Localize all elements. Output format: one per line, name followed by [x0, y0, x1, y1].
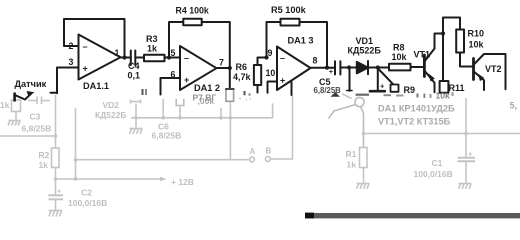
- svg-text:VD1: VD1: [356, 36, 374, 46]
- svg-text:5,: 5,: [510, 101, 518, 111]
- svg-text:–: –: [184, 53, 189, 63]
- svg-text:VT1: VT1: [414, 50, 431, 60]
- svg-text:R9: R9: [404, 85, 416, 95]
- svg-text:R5 100k: R5 100k: [271, 5, 307, 15]
- svg-text:+ 12В: + 12В: [171, 177, 194, 187]
- svg-text:6,8/25В: 6,8/25В: [314, 86, 342, 95]
- svg-text:DA1 КР1401УД2Б: DA1 КР1401УД2Б: [378, 104, 455, 114]
- svg-text:DA1.1: DA1.1: [83, 81, 109, 91]
- svg-text:10k: 10k: [392, 52, 408, 62]
- svg-text:+: +: [57, 187, 62, 196]
- svg-text:R3: R3: [146, 34, 158, 44]
- svg-text:C2: C2: [81, 188, 92, 198]
- svg-text:5: 5: [171, 48, 176, 58]
- svg-text:9: 9: [268, 48, 273, 58]
- svg-text:6: 6: [171, 70, 176, 80]
- svg-text:КД522Б: КД522Б: [95, 110, 127, 120]
- svg-text:4,7k: 4,7k: [233, 72, 252, 82]
- svg-text:100,0/16В: 100,0/16В: [68, 198, 107, 208]
- svg-text:3: 3: [69, 57, 74, 67]
- svg-text:10k: 10k: [469, 40, 485, 50]
- svg-text:6,8/25В: 6,8/25В: [22, 124, 52, 134]
- svg-text:0,1: 0,1: [128, 71, 141, 81]
- svg-text:100,0/16В: 100,0/16В: [414, 169, 453, 179]
- svg-text:DA1 3: DA1 3: [288, 36, 314, 46]
- svg-text:A: A: [250, 147, 256, 156]
- svg-text:C3: C3: [30, 112, 41, 122]
- svg-text:VT1,VT2 КТ315Б: VT1,VT2 КТ315Б: [378, 117, 451, 127]
- svg-text:10k: 10k: [436, 91, 450, 101]
- svg-text:2: 2: [69, 41, 74, 51]
- svg-text:КД522Б: КД522Б: [348, 46, 382, 56]
- svg-text:VD2: VD2: [103, 100, 120, 110]
- svg-text:8: 8: [313, 56, 318, 66]
- svg-text:1k: 1k: [0, 100, 10, 110]
- svg-text:+: +: [83, 64, 88, 74]
- svg-text:7: 7: [219, 58, 224, 68]
- svg-text:R1: R1: [346, 149, 357, 159]
- svg-text:C4: C4: [128, 61, 140, 71]
- svg-text:VT2: VT2: [485, 64, 502, 74]
- svg-text:10: 10: [266, 68, 276, 78]
- svg-text:–: –: [280, 53, 285, 63]
- svg-text:R11: R11: [449, 83, 465, 93]
- svg-text:+: +: [280, 76, 285, 86]
- svg-text:R6: R6: [236, 62, 248, 72]
- svg-text:Р7 ВГ: Р7 ВГ: [193, 93, 217, 103]
- svg-text:R4 100k: R4 100k: [176, 6, 209, 16]
- svg-text:6,8/25В: 6,8/25В: [152, 131, 182, 141]
- svg-text:R2: R2: [39, 150, 50, 160]
- svg-text:+: +: [380, 82, 385, 91]
- svg-text:R10: R10: [468, 29, 485, 39]
- svg-text:C1: C1: [432, 158, 443, 168]
- svg-text:1k: 1k: [39, 160, 49, 170]
- svg-text:1k: 1k: [347, 160, 357, 170]
- svg-text:DA1 2: DA1 2: [194, 83, 220, 93]
- svg-text:R8: R8: [393, 43, 405, 53]
- svg-text:Датчик: Датчик: [15, 79, 47, 89]
- svg-text:B: B: [266, 147, 272, 156]
- svg-text:+: +: [184, 75, 189, 85]
- svg-text:+: +: [468, 150, 473, 159]
- svg-text:+: +: [329, 67, 334, 76]
- svg-text:1: 1: [115, 48, 120, 58]
- svg-text:1k: 1k: [147, 44, 158, 54]
- svg-text:–: –: [83, 42, 88, 52]
